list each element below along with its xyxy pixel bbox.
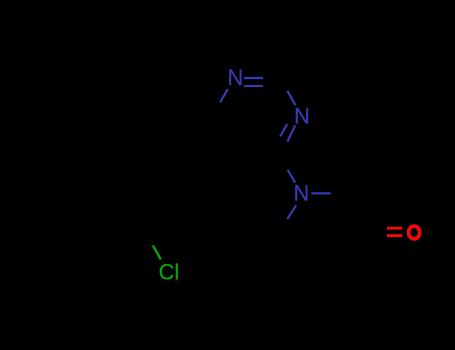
svg-text:Cl: Cl <box>159 260 180 285</box>
svg-text:N: N <box>228 65 244 90</box>
svg-text:N: N <box>294 180 310 205</box>
svg-text:N: N <box>294 104 310 129</box>
